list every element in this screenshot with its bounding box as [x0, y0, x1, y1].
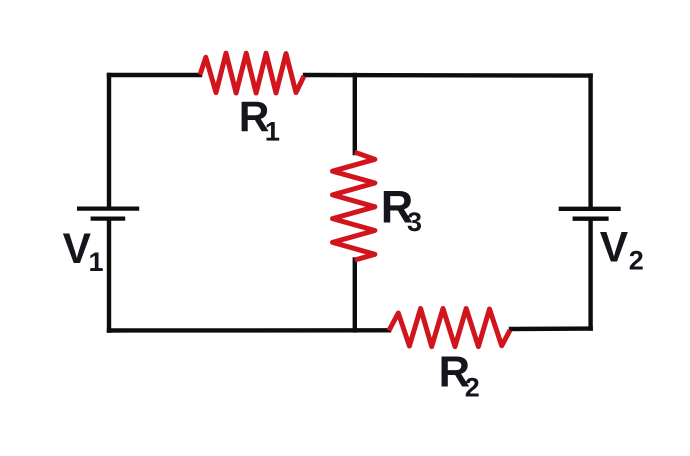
label R3 — [381, 182, 422, 238]
wire bottom-right segment — [511, 326, 591, 331]
wire middle branch lower — [353, 260, 357, 331]
svg-text:2: 2 — [629, 245, 644, 275]
label V2 — [600, 225, 644, 276]
label R2 — [439, 348, 480, 402]
battery V2 long plate — [559, 207, 621, 211]
battery V2 short plate — [573, 217, 609, 221]
resistor R3 — [333, 152, 375, 260]
svg-text:1: 1 — [265, 117, 280, 147]
svg-text:2: 2 — [465, 372, 480, 402]
resistor R2 — [389, 309, 510, 347]
svg-text:V: V — [600, 225, 629, 272]
battery V1 long plate — [77, 206, 139, 210]
battery V1 short plate — [91, 216, 126, 220]
svg-text:3: 3 — [407, 207, 422, 237]
label V1 — [63, 226, 104, 277]
wire right vertical lower — [588, 221, 592, 329]
wire left vertical lower — [107, 221, 111, 331]
wire bottom-left segment — [109, 328, 389, 333]
wire right vertical upper — [588, 76, 592, 207]
svg-text:V: V — [63, 226, 92, 273]
wire top-right segment — [305, 73, 591, 78]
label R1 — [239, 94, 280, 147]
wire middle branch upper — [353, 75, 357, 153]
svg-text:1: 1 — [89, 247, 104, 277]
resistor R1 — [200, 53, 304, 93]
wire left vertical upper — [107, 75, 111, 206]
wire top-left segment — [109, 73, 200, 77]
